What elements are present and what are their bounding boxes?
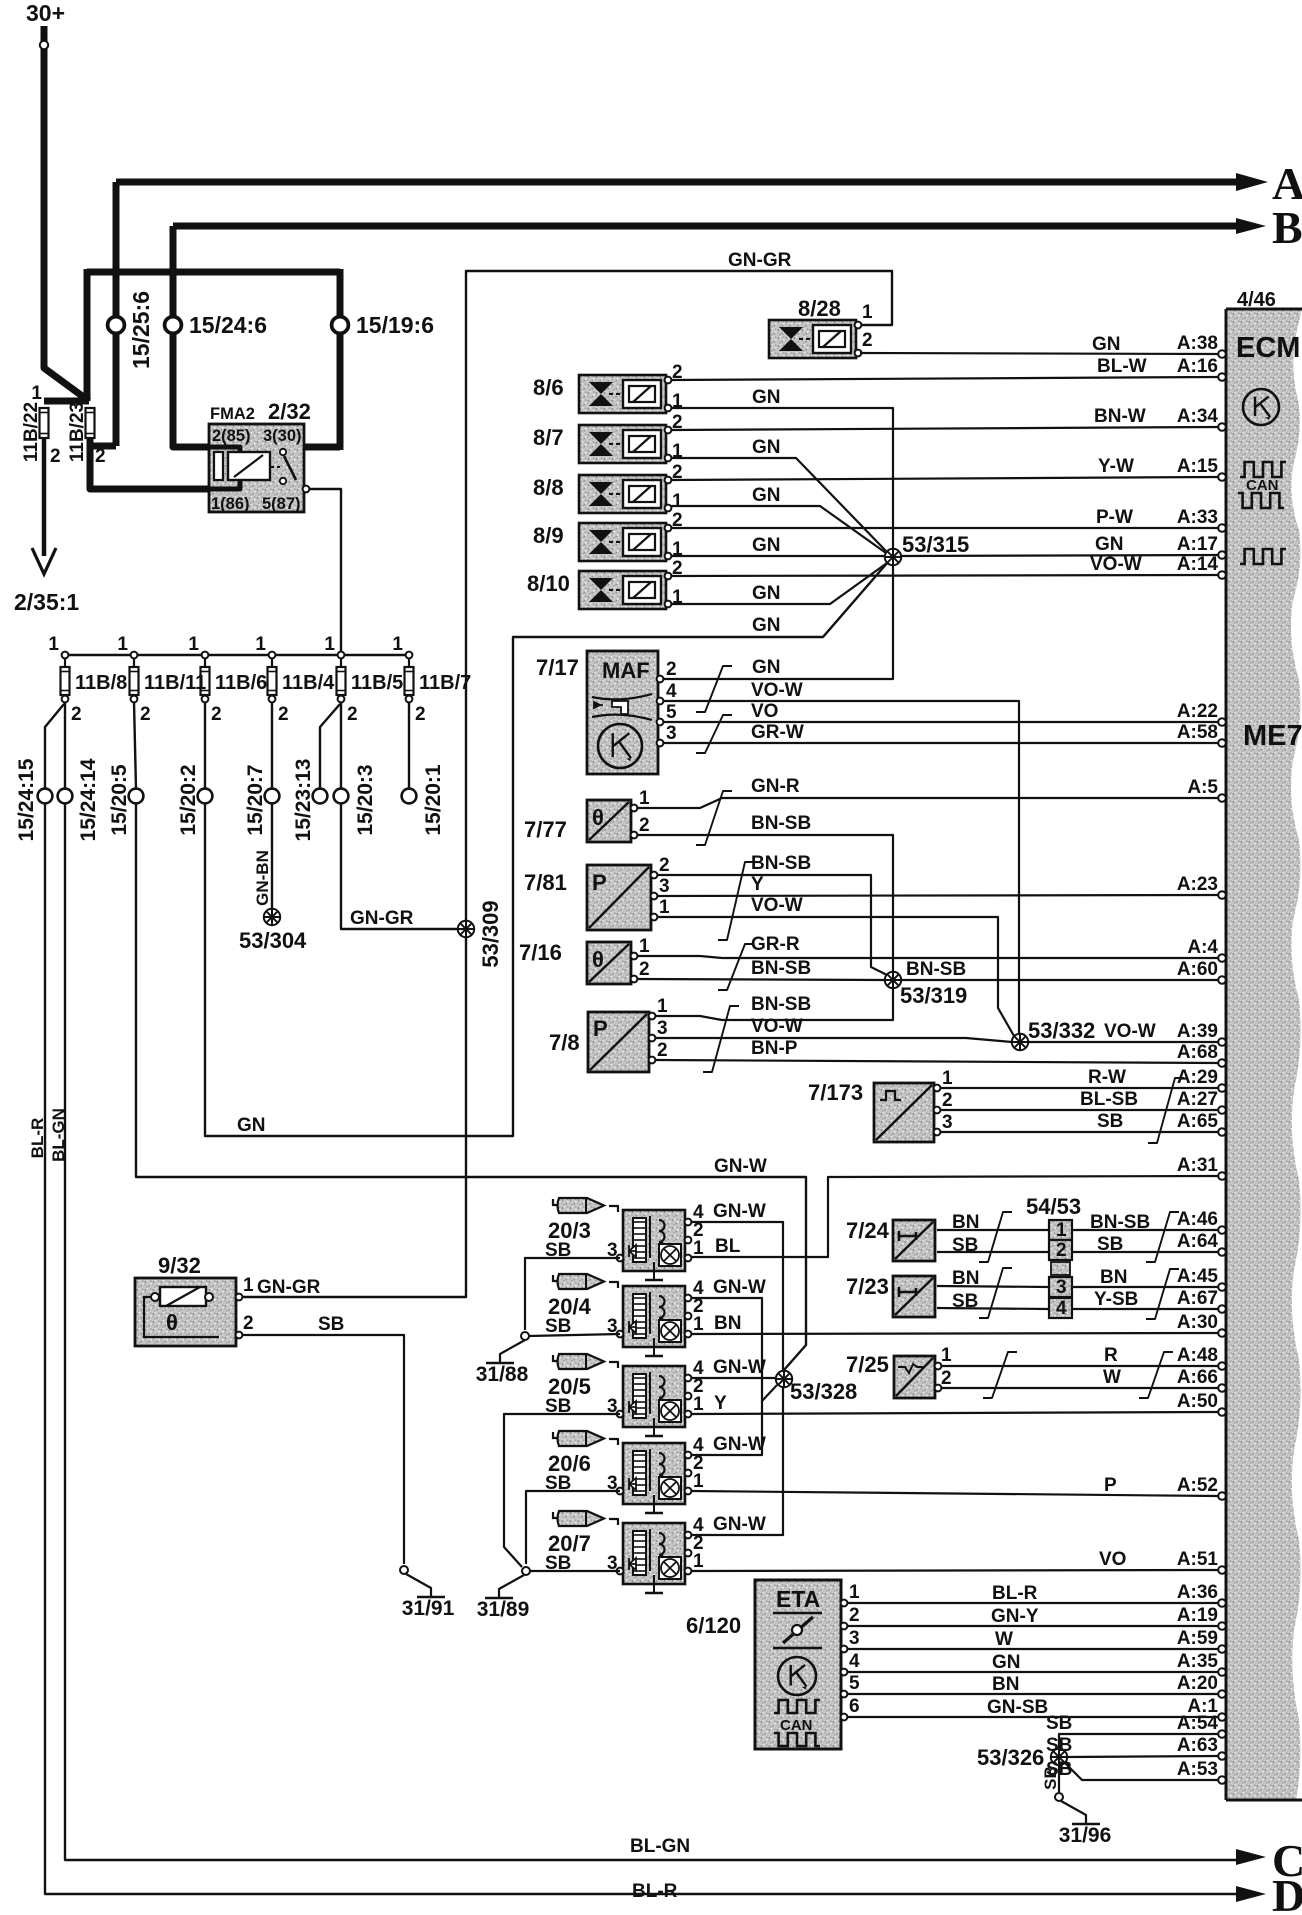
wire 8/8 pin1 GN	[671, 506, 886, 553]
wire 11B/11 to 15/20:5	[134, 702, 136, 789]
svg-text:2: 2	[347, 704, 358, 725]
svg-text:2: 2	[140, 704, 151, 725]
svg-text:2: 2	[50, 446, 61, 467]
svg-text:GN: GN	[752, 387, 781, 408]
wire GN-BN from 15/20:7	[271, 803, 273, 909]
svg-text:1: 1	[324, 634, 335, 655]
svg-text:15/20:3: 15/20:3	[354, 764, 377, 835]
arrow A	[1236, 173, 1268, 191]
ECM pin A:31	[1218, 1172, 1226, 1180]
svg-text:4: 4	[1056, 1298, 1067, 1319]
ECM pin A:5	[1218, 794, 1226, 802]
accelerometer 7/25	[894, 1356, 935, 1398]
splice on 30+ wire	[40, 41, 48, 49]
svg-text:7/25: 7/25	[846, 1352, 889, 1377]
ECM pin A:39	[1218, 1038, 1226, 1046]
wire 8/6 pin2 BL-W to A:16	[671, 377, 1218, 380]
terminal 31/96	[1055, 1793, 1063, 1801]
ECM pin A:17	[1218, 551, 1226, 559]
wire BL from 20/3 pin1 to A:31	[688, 1176, 1218, 1257]
wire 11B/7 to 15/20:1	[408, 702, 410, 789]
svg-text:A:19: A:19	[1177, 1605, 1218, 1626]
wire SB to A:63	[1068, 1756, 1218, 1757]
wire 11B/22 to 2/35:1	[42, 438, 47, 556]
ECM pin A:48	[1218, 1362, 1226, 1370]
fuse 11B/5	[338, 652, 345, 659]
wire BL-GN from 15/24:14 to C	[65, 803, 1236, 1860]
injection valve 8/28	[769, 320, 856, 358]
svg-text:54/53: 54/53	[1026, 1194, 1081, 1219]
svg-text:7/23: 7/23	[846, 1274, 889, 1299]
svg-text:BN-P: BN-P	[751, 1038, 798, 1059]
ground 31/91	[406, 1574, 431, 1597]
svg-text:1: 1	[255, 634, 266, 655]
svg-text:VO-W: VO-W	[1104, 1021, 1156, 1042]
svg-text:A:20: A:20	[1177, 1673, 1218, 1694]
wire node to A:17 GN	[901, 555, 1218, 556]
svg-text:Y-SB: Y-SB	[1094, 1289, 1138, 1310]
svg-text:1: 1	[693, 1551, 704, 1572]
svg-text:SB: SB	[1046, 1735, 1072, 1756]
svg-text:11B/8: 11B/8	[75, 672, 127, 694]
wire 8/28 pin2 GN to A:38	[860, 353, 1218, 354]
svg-text:Y: Y	[714, 1393, 727, 1414]
connector 15/20:2	[198, 789, 213, 804]
svg-text:GN-W: GN-W	[713, 1434, 766, 1455]
svg-text:11B/23: 11B/23	[67, 402, 88, 462]
svg-text:A:52: A:52	[1177, 1475, 1218, 1496]
svg-text:1: 1	[693, 1314, 704, 1335]
ECM K symbol	[1243, 389, 1279, 425]
svg-text:1: 1	[117, 634, 128, 655]
ECM pin A:19	[1218, 1622, 1226, 1630]
harness slash	[1146, 1269, 1179, 1319]
wire 20/5 pin4 GN-W	[691, 1377, 775, 1379]
ECM pin A:22	[1218, 718, 1226, 726]
svg-text:BN-SB: BN-SB	[751, 958, 811, 979]
fuse 11B/11	[131, 652, 138, 659]
svg-text:8/9: 8/9	[533, 523, 564, 548]
svg-text:4: 4	[666, 681, 677, 702]
svg-text:11B/22: 11B/22	[21, 402, 42, 462]
ECM pin A:54	[1218, 1730, 1226, 1738]
node 53/319	[885, 972, 901, 988]
svg-text:2: 2	[243, 1313, 254, 1334]
svg-text:A:27: A:27	[1177, 1089, 1218, 1110]
wire 20/5 pin1 Y to A:50	[691, 1412, 1218, 1414]
svg-text:7/8: 7/8	[549, 1030, 580, 1055]
svg-text:5: 5	[849, 1673, 860, 1694]
svg-text:GN-W: GN-W	[713, 1514, 766, 1535]
node 53/304	[264, 909, 280, 925]
svg-text:A:63: A:63	[1177, 1735, 1218, 1756]
svg-text:ETA: ETA	[776, 1586, 820, 1612]
relay 2/32 FMA2	[209, 399, 311, 513]
svg-text:15/24:14: 15/24:14	[77, 758, 100, 841]
svg-text:GN: GN	[752, 615, 781, 636]
wire 20/3 pin4 GN-W	[691, 1222, 783, 1371]
svg-text:3: 3	[666, 723, 677, 744]
ignition coil 20/6	[623, 1443, 685, 1513]
wire 20/7 pin1 VO to A:51	[691, 1570, 1218, 1571]
wire 7/8 pin1 BN-SB to node 53/319	[655, 988, 893, 1020]
svg-text:A:16: A:16	[1177, 356, 1218, 377]
svg-text:A:68: A:68	[1177, 1042, 1218, 1063]
svg-text:11B/5: 11B/5	[351, 672, 403, 694]
svg-text:GR-W: GR-W	[751, 722, 804, 743]
svg-text:2: 2	[71, 704, 82, 725]
svg-text:53/309: 53/309	[478, 900, 503, 967]
thick bus left edge	[84, 269, 91, 401]
svg-text:1: 1	[639, 936, 650, 957]
svg-text:VO-W: VO-W	[751, 680, 803, 701]
svg-text:P: P	[1104, 1475, 1117, 1496]
ECM pin A:64	[1218, 1248, 1226, 1256]
connector 15/23:13	[313, 789, 328, 804]
svg-text:P-W: P-W	[1096, 507, 1133, 528]
wire 15/19:6 to relay 3(30)	[304, 444, 340, 451]
wire 8/9 pin1 GN	[671, 555, 884, 557]
svg-text:ECM: ECM	[1236, 332, 1300, 364]
svg-text:GN-R: GN-R	[751, 776, 800, 797]
pressure sensor 7/81	[587, 865, 651, 930]
ground 31/96	[1061, 1801, 1086, 1824]
ECM pin A:29	[1218, 1084, 1226, 1092]
spark plug of 20/3	[553, 1198, 604, 1213]
wire GN-W feed from 15/20:5	[136, 803, 806, 1370]
svg-text:53/328: 53/328	[790, 1379, 857, 1404]
svg-text:A:34: A:34	[1177, 406, 1219, 427]
harness slash	[696, 715, 732, 753]
svg-text:SB: SB	[952, 1291, 978, 1312]
wire 7/16 pin2 BN-SB to node 53/319	[637, 979, 885, 980]
ECM pin A:14	[1218, 571, 1226, 579]
sensor 7/173	[874, 1083, 934, 1142]
wire 8/10 pin2 VO-W to A:14	[671, 575, 1218, 576]
svg-text:31/89: 31/89	[477, 1598, 530, 1621]
svg-text:A:51: A:51	[1177, 1549, 1219, 1570]
ECM pin A:68	[1218, 1059, 1226, 1067]
svg-text:8/8: 8/8	[533, 475, 564, 500]
svg-text:3: 3	[1056, 1277, 1067, 1298]
svg-text:GN: GN	[752, 437, 781, 458]
svg-text:W: W	[995, 1629, 1013, 1650]
svg-text:P: P	[593, 1016, 608, 1041]
injection valve 8/9	[579, 523, 666, 561]
svg-text:GN: GN	[752, 485, 781, 506]
svg-text:2: 2	[639, 959, 650, 980]
svg-text:SB: SB	[545, 1316, 571, 1337]
wire link to fuse 11B/23	[90, 440, 116, 446]
wire BL-R from 15/24:15 to D	[45, 803, 1236, 1894]
wire 20/5 pin3 SB chain	[504, 1414, 620, 1567]
svg-text:2: 2	[942, 1090, 953, 1111]
svg-text:R-W: R-W	[1088, 1067, 1126, 1088]
svg-text:BN: BN	[952, 1268, 979, 1289]
svg-text:BL-W: BL-W	[1097, 356, 1147, 377]
svg-text:15/24:15: 15/24:15	[15, 758, 38, 841]
wire fuse 11B/23 to relay 1(86)	[90, 437, 209, 489]
arrow C	[1236, 1849, 1266, 1865]
svg-text:BN-SB: BN-SB	[906, 959, 966, 980]
ECM pin A:45	[1218, 1283, 1226, 1291]
svg-text:2: 2	[1056, 1240, 1067, 1261]
node 53/309	[458, 921, 474, 937]
svg-text:2: 2	[639, 815, 650, 836]
svg-text:θ: θ	[592, 947, 604, 972]
svg-text:GN-W: GN-W	[713, 1357, 766, 1378]
wire A thick	[116, 179, 1236, 186]
ECM pin A:67	[1218, 1305, 1226, 1313]
svg-text:A:5: A:5	[1187, 777, 1218, 798]
svg-text:1: 1	[392, 634, 403, 655]
svg-text:1: 1	[659, 897, 670, 918]
wire 8/7 pin2 BN-W to A:34	[671, 427, 1218, 430]
svg-text:A:66: A:66	[1177, 1367, 1218, 1388]
node 53/332	[1012, 1034, 1028, 1050]
junction SB 31/89	[522, 1567, 530, 1575]
ECM pin A:60	[1218, 976, 1226, 984]
svg-text:GN: GN	[1092, 334, 1121, 355]
svg-text:GN: GN	[237, 1115, 266, 1136]
connector 15/20:1	[402, 789, 417, 804]
injection valve 8/6	[579, 375, 666, 413]
svg-text:53/315: 53/315	[902, 532, 969, 557]
harness slash	[718, 944, 754, 990]
svg-text:8/6: 8/6	[533, 375, 564, 400]
harness slash	[983, 1352, 1017, 1398]
svg-text:4: 4	[849, 1651, 860, 1672]
wire 20/7 pin4 GN-W	[691, 1387, 783, 1535]
thick right edge to 15/19:6	[337, 269, 344, 450]
wire 7/25 pin1 R to A:48	[941, 1365, 1218, 1367]
svg-text:MAF: MAF	[602, 658, 650, 683]
ECM pin A:33	[1218, 524, 1226, 532]
svg-text:3: 3	[659, 876, 670, 897]
svg-text:31/91: 31/91	[402, 1597, 455, 1620]
wire 8/9 pin2 P-W to A:33	[671, 527, 1218, 529]
wire from A to connector 15/25:6	[113, 182, 120, 446]
wire SB to A:53	[1065, 1763, 1218, 1780]
terminal 31/91	[400, 1566, 408, 1574]
svg-text:VO-W: VO-W	[1090, 554, 1142, 575]
svg-text:6/120: 6/120	[686, 1613, 741, 1638]
svg-text:GN-GR: GN-GR	[257, 1277, 321, 1298]
svg-text:BL-R: BL-R	[28, 1118, 47, 1159]
svg-text:GN-W: GN-W	[713, 1277, 766, 1298]
wire node to MAF pin2	[664, 565, 893, 679]
ECM pin A:58	[1218, 739, 1226, 747]
svg-text:θ: θ	[166, 1310, 178, 1335]
wire 11B/8 branch to 15/24:15	[45, 704, 64, 789]
ECM pin A:65	[1218, 1128, 1226, 1136]
fuse 11B/23	[86, 408, 95, 438]
svg-text:7/24: 7/24	[846, 1218, 890, 1243]
svg-text:BN-SB: BN-SB	[1090, 1212, 1150, 1233]
svg-text:3(30): 3(30)	[263, 427, 302, 445]
svg-text:7/16: 7/16	[519, 940, 562, 965]
svg-text:1: 1	[31, 383, 42, 404]
svg-text:GN-Y: GN-Y	[991, 1606, 1039, 1627]
svg-text:7/17: 7/17	[536, 655, 579, 680]
injection valve 8/8	[579, 475, 666, 513]
svg-text:15/20:5: 15/20:5	[108, 764, 131, 836]
harness slash	[1139, 1352, 1173, 1398]
wire 11B/5 branch to 15/23:13	[320, 704, 340, 789]
svg-text:A:14: A:14	[1177, 554, 1219, 575]
ECM pin A:15	[1218, 473, 1226, 481]
ignition coil 20/3	[623, 1210, 685, 1280]
svg-text:ME7: ME7	[1243, 720, 1302, 752]
svg-text:30+: 30+	[26, 0, 65, 26]
svg-text:7/77: 7/77	[524, 817, 567, 842]
wire 11B/8 to 15/24:14	[64, 702, 66, 789]
svg-text:BL-GN: BL-GN	[630, 1836, 690, 1857]
svg-text:4/46: 4/46	[1237, 289, 1276, 311]
wire 8/6 pin1 GN	[671, 408, 893, 549]
spark plug of 20/7	[553, 1511, 604, 1526]
ECM pin A:63	[1218, 1752, 1226, 1760]
svg-text:SB: SB	[952, 1235, 978, 1256]
wire MAF pin4 VO-W	[664, 701, 1019, 1034]
wire ETA pin5 BN	[841, 1691, 848, 1698]
svg-text:GN: GN	[752, 535, 781, 556]
wire 8/10 pin1 GN	[671, 563, 887, 604]
svg-text:θ: θ	[592, 805, 604, 830]
wire GN-GR riser	[466, 271, 892, 921]
ignition coil 20/7	[623, 1523, 685, 1593]
wire 11B/4 to 15/20:7	[271, 702, 273, 789]
wire 7/23 SB to 54/53 pin4	[937, 1308, 1048, 1309]
svg-text:1: 1	[672, 491, 683, 512]
fuse 11B/4	[269, 652, 276, 659]
arrow B	[1236, 218, 1266, 234]
wire to fuse 11B/22	[44, 398, 89, 405]
svg-text:2: 2	[666, 659, 677, 680]
wire 7/81 pin2 BN-SB	[657, 875, 889, 976]
ECM pin A:35	[1218, 1668, 1226, 1676]
wire MAF pin3 GR-W to A:58	[664, 742, 1218, 744]
wire 8/7 pin1 GN	[671, 458, 886, 551]
ECM pin A:16	[1218, 373, 1226, 381]
svg-text:C: C	[1272, 1835, 1302, 1886]
svg-text:A:30: A:30	[1177, 1312, 1218, 1333]
wire 11B/6 to 15/20:2	[204, 702, 206, 789]
mass air flow sensor 7/17	[587, 651, 658, 774]
temperature sensor 7/77	[587, 800, 631, 842]
svg-text:1: 1	[849, 1582, 860, 1603]
svg-text:A:64: A:64	[1177, 1231, 1219, 1252]
ECM pin A:4	[1218, 954, 1226, 962]
svg-text:15/24:6: 15/24:6	[189, 312, 267, 338]
svg-text:BN-W: BN-W	[1094, 406, 1146, 427]
wire 7/24 SB to 54/53 pin2	[937, 1251, 1048, 1253]
svg-text:BL: BL	[715, 1236, 741, 1257]
svg-text:BL-GN: BL-GN	[49, 1108, 68, 1162]
svg-text:A:46: A:46	[1177, 1209, 1218, 1230]
svg-text:R: R	[1104, 1345, 1118, 1366]
ECM pin A:52	[1218, 1492, 1226, 1500]
ECM pin A:30	[1218, 1329, 1226, 1337]
svg-text:GN: GN	[752, 657, 781, 678]
connector 15/25:6	[108, 317, 125, 334]
svg-text:A:54: A:54	[1177, 1713, 1219, 1734]
spark plug of 20/6	[553, 1431, 604, 1446]
fuse 11B/6	[202, 652, 209, 659]
svg-text:BL-SB: BL-SB	[1080, 1089, 1138, 1110]
ECM pin A:38	[1218, 350, 1226, 358]
wire 20/6 pin1 P to A:52	[691, 1491, 1218, 1496]
svg-text:A:4: A:4	[1187, 937, 1218, 958]
wire 20/6 pin3 SB chain	[526, 1491, 620, 1564]
svg-text:A:53: A:53	[1177, 1759, 1218, 1780]
svg-text:2: 2	[211, 704, 222, 725]
ECM pin A:59	[1218, 1645, 1226, 1653]
svg-text:53/319: 53/319	[900, 983, 967, 1008]
wire 15/24:6 to relay 2(85)	[173, 443, 209, 447]
wire 30+ vertical	[44, 26, 89, 401]
svg-text:15/20:1: 15/20:1	[422, 764, 445, 836]
wire 7/77 pin2 BN-SB	[637, 835, 893, 972]
node 53/326	[1051, 1749, 1067, 1765]
wire B thick	[173, 223, 1236, 230]
wire 54/53 pin4 Y-SB to A:67	[1072, 1308, 1218, 1310]
connector 15/24:14	[58, 789, 73, 804]
wire 7/173 pin3 SB to A:65	[940, 1131, 1218, 1133]
svg-text:53/332: 53/332	[1028, 1018, 1095, 1043]
wire B to connector 15/24:6	[170, 226, 177, 446]
ignition coil 20/4	[623, 1286, 685, 1356]
svg-text:A:39: A:39	[1177, 1021, 1218, 1042]
wire 7/24 BN to 54/53 pin1	[937, 1229, 1048, 1231]
node 53/328	[776, 1371, 792, 1387]
svg-text:GN-BN: GN-BN	[253, 850, 272, 906]
connector 15/20:3	[334, 789, 349, 804]
wire 7/8 pin3 VO-W to node 53/332	[655, 1038, 1012, 1042]
svg-text:A:67: A:67	[1177, 1288, 1218, 1309]
svg-text:11B/7: 11B/7	[419, 672, 471, 694]
knock sensor 7/24	[893, 1220, 935, 1261]
svg-text:A:60: A:60	[1177, 959, 1218, 980]
svg-text:1: 1	[693, 1238, 704, 1259]
svg-text:CAN: CAN	[1246, 477, 1279, 494]
svg-text:A:38: A:38	[1177, 333, 1218, 354]
ground 31/88	[500, 1340, 525, 1363]
arrow D	[1236, 1886, 1266, 1902]
connector 15/20:7	[265, 789, 280, 804]
wire node 53/332 to A:39 VO-W	[1028, 1041, 1218, 1043]
svg-text:SB: SB	[1041, 1766, 1060, 1790]
ECM CAN symbol	[1240, 462, 1286, 477]
svg-text:W: W	[1103, 1367, 1121, 1388]
ECM pin A:66	[1218, 1384, 1226, 1392]
svg-text:2: 2	[941, 1368, 952, 1389]
ECM pin A:50	[1218, 1408, 1226, 1416]
svg-text:A:22: A:22	[1177, 701, 1218, 722]
throttle unit 6/120 ETA	[755, 1580, 841, 1749]
svg-text:GN-W: GN-W	[713, 1201, 766, 1222]
wire 7/16 pin1 GR-R to A:4	[637, 956, 1218, 958]
svg-text:3: 3	[657, 1018, 668, 1039]
svg-text:8/28: 8/28	[798, 296, 841, 321]
svg-text:1(86): 1(86)	[211, 495, 250, 513]
wire ETA pin1 BL-R	[841, 1600, 848, 1607]
harness slash	[718, 862, 754, 940]
wire GN-GR from 15/20:3	[341, 803, 458, 929]
ECM module 4/46 box	[1226, 309, 1302, 1800]
knock sensor 7/23	[893, 1276, 935, 1317]
heated oxygen sensor 9/32	[135, 1278, 236, 1346]
